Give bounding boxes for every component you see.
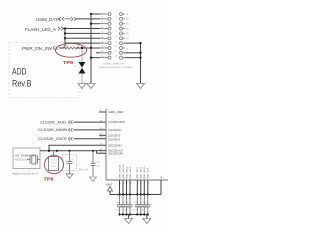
optional cap block (dashed) [63, 155, 77, 171]
svg-text:FLASH_LED_A: FLASH_LED_A [25, 27, 56, 32]
wire row2 USIM_DATA [76, 18, 100, 20]
wire row6 [65, 37, 100, 39]
wire OSC32KIN from crystal [49, 145, 106, 151]
svg-text:OSC32KIN: OSC32KIN [108, 143, 122, 147]
svg-text:PWR_ON_SW: PWR_ON_SW [22, 46, 52, 51]
svg-text:VBAT_MMC02: VBAT_MMC02 [122, 164, 125, 179]
port symbol USIM_DATA [59, 17, 76, 21]
port symbol CLK32K_AUD [68, 120, 72, 123]
svg-text:OSC32KCAP: OSC32KCAP [108, 152, 123, 156]
svg-text:CLK32KG: CLK32KG [108, 138, 120, 142]
svg-text:VBAT_BB01: VBAT_BB01 [125, 166, 128, 179]
svg-text:USIM_DATA: USIM_DATA [36, 17, 60, 22]
svg-text:CLK32K_MAIN: CLK32K_MAIN [38, 128, 68, 132]
left bus (FLASH_LED net) [64, 29, 66, 48]
svg-text:VBAT_AUX0: VBAT_AUX0 [143, 166, 146, 179]
IC bottom pin stubs [120, 180, 162, 195]
pin stub CLK32KIS [99, 134, 106, 136]
connector J1 left pin circles [108, 13, 111, 60]
wire CLK32K_MAIN [74, 129, 107, 131]
TVS diode vertical branch [81, 48, 83, 62]
IC bottom pin names (rotated) [118, 164, 163, 179]
IC bottom pin numbers [120, 183, 150, 185]
svg-text:CLK32KAUDIO: CLK32KAUDIO [108, 120, 126, 124]
capacitor C in dashed box [67, 151, 73, 174]
decoupling caps group1 [117, 195, 133, 215]
junction dots crystal net [48, 150, 94, 152]
svg-text:TP6: TP6 [44, 177, 55, 182]
pin stub CHRG_VREF [99, 111, 106, 113]
port symbol PWR_ON_SW [53, 46, 58, 50]
wire row5 [65, 32, 100, 34]
connector right pin numbers [115, 12, 118, 58]
ground stub right group [146, 215, 148, 219]
svg-text:ADD: ADD [12, 67, 27, 78]
resistor R (PWR_ON_SW) [63, 47, 79, 49]
wire CLK32K_AUD [74, 121, 107, 123]
svg-text:CHRG_VREF: CHRG_VREF [108, 110, 124, 114]
junction dot TVS tap [81, 47, 83, 49]
TP6 component box [49, 151, 59, 171]
wire crystal top net [40, 150, 97, 152]
GND rail bottom [120, 214, 148, 216]
wire CLK32K_GATE [74, 138, 107, 140]
port symbol CLK32K_GATE [68, 137, 72, 140]
load capacitor C15 [91, 151, 96, 176]
wire row7 [65, 42, 100, 44]
svg-text:CLK32K_AUD: CLK32K_AUD [40, 120, 67, 124]
svg-text:Rev.B: Rev.B [12, 79, 32, 90]
wire row10 right to GND bus [125, 57, 141, 59]
port symbol CLK32K_MAIN [68, 128, 72, 131]
svg-text:VBAT_MMC01: VBAT_MMC01 [118, 164, 121, 179]
junction dots GND bus [90, 13, 92, 59]
svg-text:GB042-10S-H10 BOARD TO BOARD: GB042-10S-H10 BOARD TO BOARD [99, 66, 133, 69]
wire row3 [91, 23, 100, 25]
wire row8 PWR_ON_SW [59, 47, 100, 49]
junction dots left bus [64, 27, 66, 39]
crystal Y1 box [13, 148, 40, 169]
connector J1 left pin stubs [100, 14, 108, 58]
ground arrow under C15 [90, 177, 97, 182]
ground arrow under dashed box [66, 174, 73, 179]
connector left pin numbers [101, 12, 104, 58]
ground arrow under bus x=90.5 [87, 84, 95, 89]
IC U1 left edge [105, 109, 107, 180]
connector J1 right pin circles [120, 13, 123, 60]
svg-text:VBAT_RF01: VBAT_RF01 [136, 166, 139, 179]
svg-text:Always mounted for TV: Always mounted for TV [12, 172, 40, 175]
connector J1 right pin stubs [123, 14, 125, 58]
red highlight ellipse TP5 [56, 43, 87, 57]
svg-text:CLK32KAO: CLK32KAO [108, 128, 122, 132]
GND bus vertical x=90.5 [90, 14, 92, 83]
IC U1 bottom edge [106, 179, 168, 181]
ground arrow right bus [137, 84, 145, 89]
right GND bus vertical x=145 [140, 43, 142, 83]
svg-text:Rev 1.0: Rev 1.0 [79, 168, 88, 172]
wire row9 right to GND bus [125, 52, 141, 54]
svg-text:VBAT: VBAT [106, 183, 113, 187]
wire row10 [91, 57, 100, 59]
red highlight circle TP6 [44, 155, 63, 173]
ground stub left group [128, 215, 130, 219]
wire OSC32KOUT pins tie [97, 151, 107, 154]
wire row7 right to GND bus [125, 42, 141, 44]
decoupling caps group2 [135, 195, 151, 215]
junction dots VBAT rail [118, 193, 148, 195]
highlight dashed region around PWR_ON_SW circuit [9, 43, 79, 98]
TVS diode D (hourglass) [79, 62, 86, 74]
svg-text:KEYPAD CONNECTOR: KEYPAD CONNECTOR [104, 63, 125, 66]
svg-text:VBAT_BB02: VBAT_BB02 [129, 166, 132, 179]
svg-text:VBAT_RF02: VBAT_RF02 [140, 166, 143, 179]
ground arrow under TVS [78, 84, 86, 89]
cap value labels [116, 202, 148, 211]
wire row4 FLASH_LED_A [63, 28, 100, 30]
VBAT rail [110, 194, 161, 196]
wire row1 [91, 13, 100, 15]
junction dots GND rail [118, 213, 148, 215]
port symbol FLASH_LED_A [58, 27, 63, 31]
svg-text:TP5: TP5 [63, 60, 74, 65]
svg-text:VBAT_IO01: VBAT_IO01 [147, 167, 150, 179]
wire row9 stub [96, 52, 100, 54]
connector right NC labels [126, 14, 129, 50]
crystal symbol [28, 155, 41, 164]
junction dots right bus [139, 42, 141, 59]
svg-text:NX3215SA: NX3215SA [15, 159, 30, 162]
svg-text:CLK32K_GATE: CLK32K_GATE [38, 137, 68, 141]
